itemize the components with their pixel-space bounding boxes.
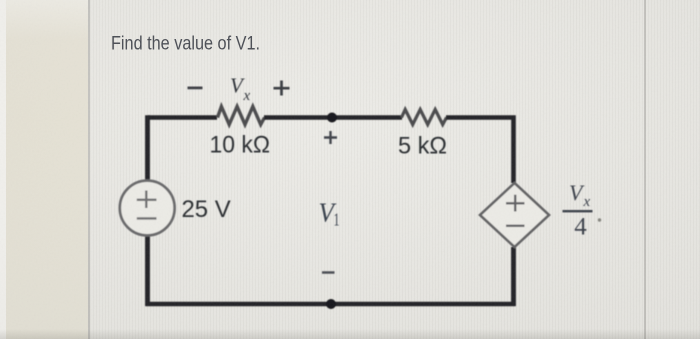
resistor R1 (10 k-ohm) zigzag: [218, 107, 265, 125]
value label 25 V: [182, 196, 231, 223]
faint right line: [644, 0, 646, 339]
svg-text:x: x: [583, 194, 591, 210]
label Vx/4 (controlled source value): [563, 180, 602, 241]
voltage source plus sign: [137, 191, 157, 209]
wire top-middle horizontal through node A: [264, 115, 402, 120]
value label 10 kOhm: [210, 131, 271, 158]
resistor R2 (5 k-ohm) zigzag: [402, 110, 447, 125]
label minus of V1 (middle): [322, 271, 335, 274]
dependent source diamond: [480, 183, 549, 247]
left beige column: [0, 0, 89, 339]
svg-text:10 kΩ: 10 kΩ: [210, 131, 271, 158]
label V1 (middle): [319, 198, 340, 230]
left white edge: [0, 0, 6, 339]
vertical seam line: [88, 0, 90, 339]
wire bottom horizontal: [146, 302, 516, 307]
voltage source V 25V circle: [120, 181, 175, 236]
svg-text:x: x: [243, 88, 251, 104]
wire right vertical bottom (diamond to bottom corner): [511, 247, 516, 306]
svg-text:4: 4: [574, 214, 587, 241]
value label 5 kOhm: [398, 133, 447, 160]
svg-text:5 kΩ: 5 kΩ: [398, 133, 447, 160]
bottom shade: [0, 329, 700, 339]
voltage source minus sign: [137, 217, 157, 219]
svg-text:1: 1: [334, 210, 340, 230]
wire left vertical top (corner to source circle): [145, 115, 150, 182]
wire left vertical bottom (source circle to bottom corner): [145, 234, 150, 306]
dependent source minus sign: [506, 225, 525, 227]
label plus of Vx (top): [274, 81, 290, 96]
dependent source plus sign: [506, 195, 525, 212]
wire top-right horizontal and corner down to diamond: [446, 118, 514, 184]
label minus of Vx (top): [188, 87, 203, 90]
svg-text:25 V: 25 V: [182, 196, 231, 223]
node A (top junction dot): [327, 113, 337, 123]
label plus of V1 (middle): [324, 131, 337, 144]
wire top-left horizontal: [148, 115, 217, 120]
label Vx (top): [230, 74, 251, 104]
node B (bottom junction dot): [326, 299, 336, 309]
